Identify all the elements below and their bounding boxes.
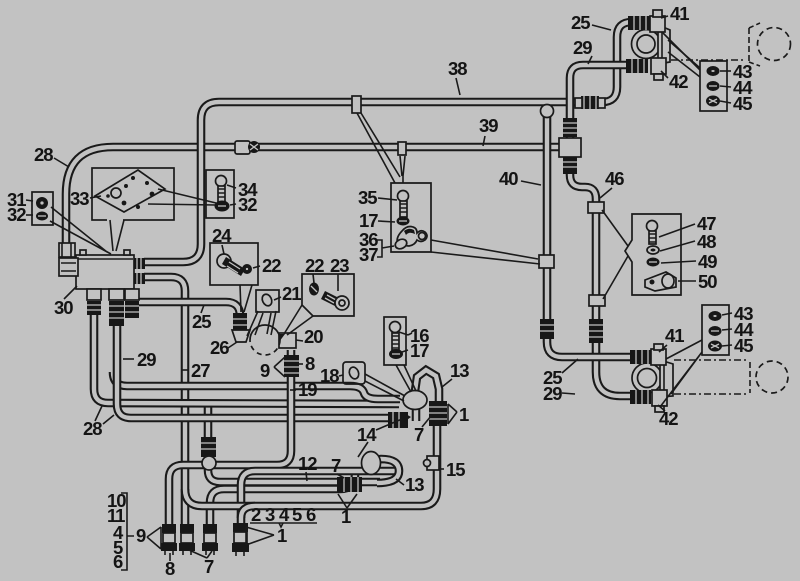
- coupling 8 on tube 19: [284, 355, 299, 377]
- svg-text:21: 21: [282, 283, 301, 304]
- washer 48: [647, 246, 659, 254]
- tube A (valve port A down, across to banjo block): [94, 312, 399, 404]
- label 25 bottom right: [543, 359, 578, 388]
- label 43 top: [720, 61, 752, 82]
- fitting 20: [279, 333, 296, 348]
- svg-text:6: 6: [113, 551, 123, 572]
- label 45 bottom: [722, 335, 753, 356]
- svg-text:27: 27: [191, 360, 210, 381]
- label 29 top: [573, 37, 592, 64]
- bolt 34: [216, 176, 227, 203]
- svg-text:17: 17: [410, 340, 429, 361]
- svg-text:28: 28: [34, 144, 53, 165]
- stem below banjo block: [404, 406, 416, 422]
- label 35: [358, 187, 397, 208]
- svg-text:7: 7: [204, 556, 214, 577]
- washer 17 in box 35: [397, 217, 410, 226]
- valve left elbow: [59, 258, 78, 276]
- label 1 right with arrow: [448, 404, 469, 425]
- svg-text:45: 45: [734, 335, 753, 356]
- svg-text:17: 17: [359, 210, 378, 231]
- svg-text:5: 5: [292, 504, 302, 525]
- coupling on tube 40 lower: [540, 319, 554, 339]
- svg-text:39: 39: [479, 115, 498, 136]
- label 29 left: [123, 349, 156, 370]
- lower brake ring: [632, 363, 662, 393]
- label 42 top: [661, 71, 688, 92]
- fitting 26 trapezoid: [232, 330, 250, 342]
- label 14: [357, 419, 402, 457]
- label 31: [7, 189, 33, 210]
- coupling on tube 29 at lower brake: [630, 390, 651, 404]
- tube B2 (valve port B down, across to coupling 14): [117, 315, 388, 418]
- box 22/23: [302, 274, 354, 316]
- tube coupling 7 to arch area: [358, 478, 380, 487]
- washer 32 in box: [215, 201, 230, 212]
- clamp lower on tube 46: [589, 295, 605, 306]
- svg-text:38: 38: [448, 58, 467, 79]
- svg-text:46: 46: [605, 168, 624, 189]
- labels 36/37 with bracket: [359, 229, 394, 265]
- label 7 left: [331, 455, 344, 478]
- coupling above tee (tube 29): [563, 118, 577, 137]
- label 42 bottom: [658, 405, 678, 429]
- pipe 13 lower S: [376, 459, 399, 483]
- svg-text:9: 9: [136, 525, 146, 546]
- svg-text:42: 42: [659, 408, 678, 429]
- box 31/32: [32, 192, 53, 225]
- label 28 top: [34, 144, 69, 167]
- bottom left stack 10/11/4/5/6 with bracket: [107, 490, 134, 572]
- leaders box 18 to banjo block: [365, 374, 405, 401]
- lower brake flange: [660, 360, 673, 397]
- box 47-50: [625, 214, 681, 295]
- label 18: [320, 365, 343, 386]
- box 33: [92, 168, 174, 220]
- box 16/17: [384, 317, 406, 365]
- lower axle dash-dot lines: [674, 360, 750, 394]
- coupling on tube 25 at top brake: [628, 16, 650, 30]
- svg-text:24: 24: [212, 225, 232, 246]
- label 47: [659, 213, 716, 237]
- svg-text:26: 26: [210, 337, 229, 358]
- leaders flange to box 43-45 top: [668, 40, 700, 77]
- svg-text:2: 2: [251, 504, 261, 525]
- label 50: [678, 271, 717, 292]
- nut 45 top: [706, 96, 720, 107]
- svg-text:15: 15: [446, 459, 465, 480]
- svg-text:1: 1: [277, 525, 287, 546]
- union on tube 38 right: [575, 96, 605, 109]
- svg-text:23: 23: [330, 255, 349, 276]
- svg-text:1: 1: [341, 506, 351, 527]
- label 30: [54, 286, 77, 318]
- label 26: [210, 337, 237, 358]
- valve bottom port C with coupling: [125, 289, 139, 318]
- svg-text:19: 19: [298, 379, 317, 400]
- coupling 1 on arch right leg: [429, 401, 447, 426]
- leaders box 16/17 to banjo block: [396, 365, 416, 392]
- label 16: [399, 325, 429, 346]
- tube 38 (valve upper right port, up, across top, up to top brake fitting 41): [144, 22, 642, 262]
- label 7 upper: [414, 416, 431, 445]
- valve right port upper: [134, 258, 145, 269]
- box 35-37: [357, 113, 431, 252]
- banjo fitting 4 (bottom row): [232, 523, 249, 556]
- tube banjo 4 up and across (tube 12): [241, 471, 396, 526]
- label 20: [296, 326, 323, 347]
- label 23: [330, 255, 349, 291]
- label 46: [600, 168, 624, 198]
- clamp upper on tube 46: [588, 202, 604, 213]
- coupling on tube 46 lower: [589, 319, 603, 343]
- box 22/24: [210, 243, 258, 285]
- valve bottom port B with coupling: [109, 289, 124, 326]
- tube bottom long (branch elbow off tube 27, across, up right leg to coupling 1): [185, 420, 437, 506]
- bolt 24: [217, 254, 245, 276]
- label 25 top: [571, 12, 611, 33]
- coupling on tube 25 left vertical: [233, 313, 247, 335]
- tube 46 (tee down, jog right, down to lower brake fitting 42): [570, 155, 642, 396]
- top dashed drum circle: [758, 28, 791, 61]
- tube 25 left (valve port C right, down to fitting 26): [137, 302, 240, 334]
- top brake flange: [658, 25, 670, 64]
- svg-text:42: 42: [669, 71, 688, 92]
- tee block on tube 39/29/46: [559, 118, 581, 174]
- bolt 47: [647, 221, 658, 245]
- box 34/32: [206, 170, 234, 218]
- svg-text:7: 7: [331, 455, 341, 476]
- svg-text:18: 18: [320, 365, 339, 386]
- lower brake fitting 41: [651, 344, 666, 365]
- leaders plate 33 to washer 32: [148, 189, 216, 205]
- label 39: [479, 115, 498, 146]
- label 45 top: [720, 93, 752, 114]
- valve body 30: [76, 250, 134, 289]
- label 28 bottom: [83, 406, 114, 439]
- label 43 bottom: [722, 303, 753, 324]
- coupling below tee (tube 46): [563, 157, 577, 174]
- plate 33: [95, 170, 165, 212]
- clamp on tube 40 mid: [539, 255, 554, 268]
- svg-text:29: 29: [573, 37, 592, 58]
- svg-text:45: 45: [733, 93, 752, 114]
- leaders box 22/24 down to coupling: [240, 285, 252, 312]
- pipe 13 upper arch: [415, 370, 439, 402]
- round fitting at top of tube 40: [541, 105, 554, 118]
- svg-text:6: 6: [306, 504, 316, 525]
- leaders box 47-50 to clamps on tube 46: [602, 210, 628, 299]
- washer 43 top: [707, 66, 720, 76]
- leaders box 35-37 to clamp on tube 40: [431, 240, 540, 264]
- valve bottom port A with coupling: [87, 289, 101, 315]
- washer 43 bottom: [709, 311, 722, 321]
- tube with union stack down to coupling 7 line: [208, 404, 342, 482]
- label 22 right: [253, 255, 281, 276]
- elbow fillet banjo 4 to bottom tube: [241, 506, 255, 518]
- label 19: [290, 379, 317, 400]
- labels 2 3 4 5 6 with underline: [250, 504, 317, 527]
- valve right port lower: [134, 273, 145, 284]
- label 8 bottom: [165, 553, 175, 579]
- svg-text:8: 8: [165, 558, 175, 579]
- grommet 44 bottom: [709, 326, 722, 336]
- svg-text:50: 50: [698, 271, 717, 292]
- svg-text:29: 29: [137, 349, 156, 370]
- leaders box 22/23 to fitting 20: [284, 305, 313, 335]
- lower brake fitting 42: [652, 390, 667, 412]
- svg-text:37: 37: [359, 244, 378, 265]
- label 29 bottom right: [543, 383, 575, 404]
- banjo fitting 1 (bottom row): [161, 524, 177, 555]
- label 44 top: [720, 77, 753, 98]
- label 17 bottom: [402, 340, 429, 361]
- svg-text:41: 41: [670, 3, 689, 24]
- clamp 38 on tube 38: [352, 96, 361, 113]
- bracket 21 A-frame: [247, 311, 276, 336]
- coupling on tube 29 at top brake: [626, 59, 648, 73]
- label 1 bottom right with arrow: [246, 525, 287, 546]
- top brake fitting 42: [651, 58, 666, 80]
- label 21: [274, 283, 301, 304]
- top brake ring: [632, 30, 661, 59]
- clip 15 on vertical tube: [424, 456, 440, 470]
- label 8 center: [297, 353, 315, 374]
- svg-text:22: 22: [305, 255, 324, 276]
- diaphragm circle: [250, 325, 280, 355]
- banjo fitting 2 (bottom row): [179, 524, 195, 555]
- label 9 bottom with arrow: [136, 525, 161, 549]
- label 41 bottom: [659, 325, 684, 352]
- svg-text:3: 3: [265, 504, 275, 525]
- svg-text:20: 20: [304, 326, 323, 347]
- svg-text:30: 30: [54, 297, 73, 318]
- label 44 bottom: [722, 319, 754, 340]
- coupling 7: [337, 477, 362, 492]
- bolt 23: [321, 291, 349, 310]
- grommet 22 in box: [309, 283, 319, 296]
- svg-text:35: 35: [358, 187, 377, 208]
- label 27: [181, 360, 210, 381]
- label 17 top: [359, 210, 395, 231]
- leaders fitting 41/42 top brake: [663, 33, 700, 70]
- svg-text:28: 28: [83, 418, 102, 439]
- svg-text:9: 9: [260, 360, 270, 381]
- svg-text:40: 40: [499, 168, 518, 189]
- bolt 16: [390, 322, 401, 351]
- leaders flange to box 43-45 bottom: [660, 340, 702, 407]
- grommet 44 top: [707, 81, 720, 91]
- tube 19 (banjo 1 up, across, up to fitting 20): [169, 350, 291, 526]
- label 15: [439, 459, 465, 480]
- washer 22 in box: [242, 264, 252, 274]
- svg-text:29: 29: [543, 383, 562, 404]
- coupling on tube 25 at lower brake: [630, 350, 651, 364]
- svg-text:32: 32: [7, 204, 26, 225]
- svg-text:25: 25: [571, 12, 590, 33]
- label 24: [212, 225, 232, 254]
- tube banjo 3 up and across to banjo block 14: [210, 470, 355, 526]
- coupling 14 on tube B2: [388, 412, 408, 428]
- leaders box 33 to valve top: [110, 220, 124, 251]
- tube 29 top (tee up to top brake fitting 42): [570, 65, 640, 140]
- label 25 left: [192, 305, 211, 332]
- label 34: [227, 179, 258, 200]
- svg-text:13: 13: [405, 474, 424, 495]
- label 33: [70, 188, 101, 209]
- lower dashed drum circle: [756, 361, 788, 393]
- washer 49: [647, 258, 660, 267]
- clamp 50: [645, 272, 676, 291]
- label 40: [499, 168, 541, 189]
- washer 17 in box 16: [389, 349, 403, 359]
- label 9 center with arrow: [260, 357, 285, 381]
- svg-text:14: 14: [357, 424, 377, 445]
- svg-text:49: 49: [698, 251, 717, 272]
- box 43-45 top: [700, 61, 727, 111]
- union on tube 39: [235, 141, 260, 154]
- tube 28 upper + tube 39 (valve left elbow up, across to tee): [66, 147, 560, 256]
- label 48: [660, 231, 716, 252]
- tube B1 (elbow, across mid, S-down to coupling 14): [113, 372, 400, 399]
- label 32 right: [230, 194, 257, 215]
- TUBES: [66, 22, 642, 526]
- svg-text:22: 22: [262, 255, 281, 276]
- svg-text:13: 13: [450, 360, 469, 381]
- banjo block upper (oval): [403, 391, 427, 410]
- top axle dash-dot lines: [671, 23, 760, 66]
- bolt 35: [398, 191, 409, 218]
- coupling stack on mid vertical tube: [201, 437, 216, 470]
- top brake fitting 41: [650, 10, 665, 32]
- box 21: [256, 290, 279, 312]
- label 13 lower: [396, 474, 424, 495]
- svg-text:41: 41: [665, 325, 684, 346]
- svg-text:32: 32: [238, 194, 257, 215]
- label 38: [448, 58, 467, 95]
- label 7 bottom with V arrow: [189, 550, 214, 577]
- label 32 left: [7, 204, 33, 225]
- tube 27 (valve lower right port, down to banjo 2): [144, 277, 185, 526]
- banjo fitting 3 (bottom row): [202, 524, 218, 555]
- label 12: [298, 453, 317, 481]
- box 18: [343, 362, 365, 384]
- leaders box 31/32 to valve: [50, 207, 111, 254]
- svg-text:48: 48: [697, 231, 716, 252]
- label 1 lower with triangle: [338, 494, 357, 527]
- label 41 top: [661, 3, 689, 24]
- svg-text:12: 12: [298, 453, 317, 474]
- clamp 36/37: [394, 227, 427, 251]
- label 22 mid: [305, 255, 324, 283]
- clamp on tube 39 at x 401: [398, 142, 406, 155]
- svg-text:8: 8: [305, 353, 315, 374]
- union on tube 28 upper vertical: [59, 243, 75, 257]
- label 49: [661, 251, 717, 272]
- banjo block 14 lower (oval): [362, 452, 381, 475]
- svg-text:25: 25: [192, 311, 211, 332]
- nut 45 bottom: [708, 341, 722, 352]
- label 13 upper: [442, 360, 469, 387]
- tube 40 (tee on tube 38 down, to lower brake fitting 41): [547, 108, 642, 357]
- box 43-45 bottom: [702, 305, 729, 355]
- svg-text:33: 33: [70, 188, 89, 209]
- svg-text:1: 1: [459, 404, 469, 425]
